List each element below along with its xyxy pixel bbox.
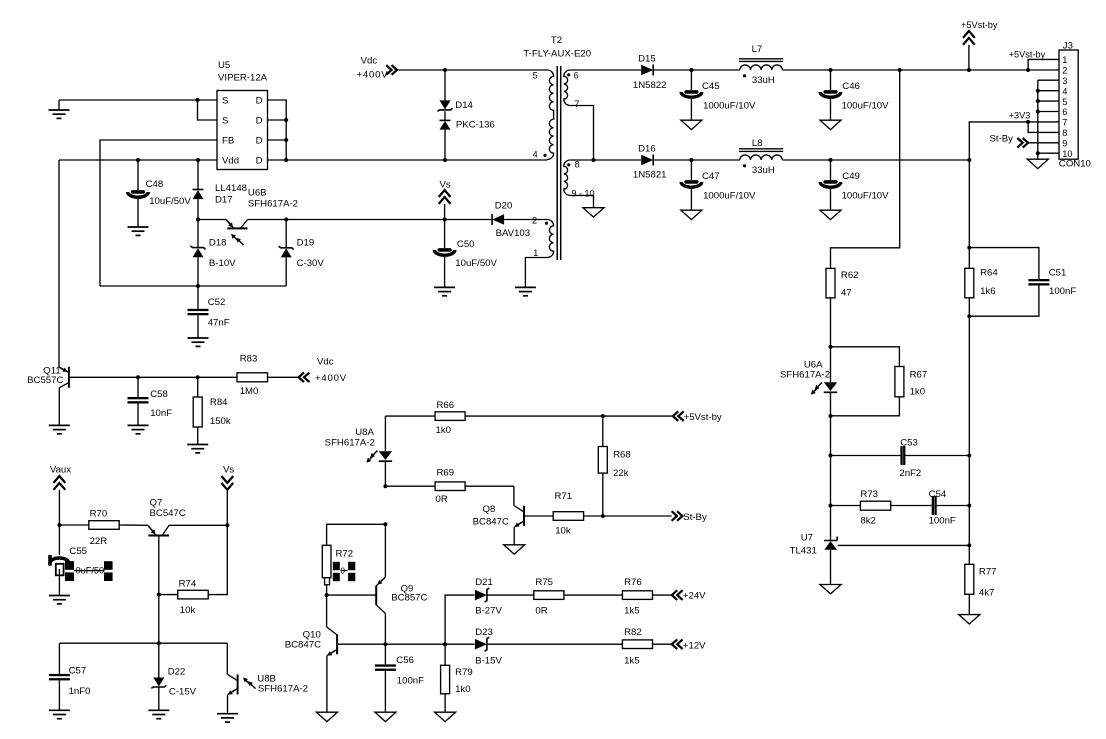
wire — [59, 642, 227, 644]
resistor R71 10k — [524, 491, 672, 536]
svg-text:SFH617A-2: SFH617A-2 — [780, 370, 830, 381]
port Vdc input — [357, 56, 398, 81]
node S junction — [196, 98, 200, 102]
ground — [820, 585, 841, 594]
wire — [570, 159, 641, 161]
svg-text:PKC-136: PKC-136 — [456, 120, 495, 131]
resistor R74 10k — [159, 525, 228, 616]
svg-text:4: 4 — [1062, 86, 1067, 96]
svg-text:U8A: U8A — [355, 427, 374, 438]
svg-text:1k6: 1k6 — [980, 286, 995, 297]
svg-text:1k0: 1k0 — [455, 684, 470, 695]
wire S1 — [59, 99, 217, 101]
resistor R79 1k0 — [441, 644, 473, 712]
node — [967, 454, 971, 458]
wire — [782, 69, 969, 71]
port +24V — [672, 590, 706, 601]
node — [157, 593, 161, 597]
transistor Q9 BC857C — [327, 524, 428, 613]
svg-text:10uF/50V: 10uF/50V — [149, 196, 191, 207]
supply Vaux — [50, 465, 71, 525]
node — [967, 504, 971, 508]
svg-text:7: 7 — [1062, 118, 1067, 128]
svg-text:2: 2 — [1062, 66, 1067, 76]
transistor Q8 BC847C — [473, 486, 524, 545]
svg-text:D23: D23 — [475, 627, 493, 638]
wire D21 branch — [445, 595, 474, 644]
svg-text:+5Vst-by: +5Vst-by — [1009, 50, 1046, 60]
svg-text:D21: D21 — [475, 577, 493, 588]
label T2 — [523, 35, 591, 59]
capacitor C55 10uF/50V — [48, 525, 112, 596]
svg-text:5: 5 — [1062, 97, 1067, 107]
svg-text:10k: 10k — [555, 525, 571, 536]
node — [1036, 151, 1040, 155]
svg-text:8: 8 — [1062, 128, 1067, 138]
svg-text:R68: R68 — [613, 450, 631, 461]
svg-text:R79: R79 — [455, 667, 473, 678]
ground — [820, 120, 841, 129]
node — [383, 642, 387, 646]
svg-text:J3: J3 — [1063, 40, 1073, 51]
wire — [384, 613, 386, 644]
wire — [397, 69, 547, 71]
svg-text:47: 47 — [841, 288, 852, 299]
node — [967, 314, 971, 318]
svg-text:R70: R70 — [90, 509, 108, 520]
node — [1026, 68, 1030, 72]
svg-text:C54: C54 — [929, 489, 947, 500]
resistor R72 10R — [322, 545, 355, 595]
capacitor C54 100nF — [929, 489, 970, 527]
svg-text:U6B: U6B — [248, 188, 267, 199]
svg-text:R82: R82 — [624, 627, 642, 638]
node — [829, 504, 833, 508]
svg-text:6: 6 — [1062, 107, 1067, 117]
svg-text:1k0: 1k0 — [436, 425, 451, 436]
resistor R84 150k — [193, 377, 231, 444]
wire Q11 collector — [58, 388, 60, 426]
transformer T2 primary winding — [533, 70, 554, 160]
node — [196, 284, 200, 288]
ground — [187, 445, 208, 453]
capacitor C49 100uF/10V — [820, 160, 889, 210]
svg-text:R64: R64 — [980, 268, 998, 279]
svg-text:1N5821: 1N5821 — [633, 170, 667, 181]
wire S2 — [198, 100, 218, 120]
wire pin10 — [1038, 152, 1059, 154]
transformer T2 aux winding 2-1 — [532, 215, 553, 258]
port Vdc — [299, 356, 347, 384]
resistor R82 1k5 — [622, 627, 671, 667]
svg-text:0uF/50: 0uF/50 — [76, 565, 105, 575]
inductor L7 33uH — [739, 44, 783, 86]
capacitor C46 100uF/10V — [820, 70, 889, 120]
supply +5Vst-by — [961, 20, 998, 70]
node — [1036, 110, 1040, 114]
svg-text:4: 4 — [533, 150, 538, 160]
ground — [49, 596, 70, 604]
ground — [681, 120, 702, 129]
svg-text:100uF/10V: 100uF/10V — [842, 101, 890, 112]
svg-text:L7: L7 — [752, 44, 763, 55]
svg-text:D: D — [256, 116, 263, 127]
node — [196, 158, 200, 162]
capacitor C57 1nF0 — [49, 643, 91, 710]
node — [601, 414, 605, 418]
diode D16 1N5821 — [633, 143, 667, 180]
port +5Vst-by — [673, 411, 722, 423]
wire — [570, 69, 641, 71]
node — [689, 158, 693, 162]
node — [967, 543, 971, 547]
ground — [128, 425, 149, 433]
connector J3 CON10 — [1059, 40, 1091, 169]
svg-text:0R: 0R — [535, 605, 547, 616]
svg-text:C48: C48 — [146, 179, 164, 190]
svg-text:+24V: +24V — [683, 591, 706, 602]
svg-text:St-By: St-By — [683, 512, 707, 523]
svg-text:Vs: Vs — [223, 465, 234, 476]
svg-text:2nF2: 2nF2 — [899, 468, 921, 479]
node — [136, 158, 140, 162]
resistor R66 1k0 — [385, 400, 672, 436]
transistor Q10 BC847C — [285, 627, 337, 712]
node — [829, 454, 833, 458]
svg-text:1: 1 — [1062, 55, 1067, 65]
ground — [959, 615, 980, 624]
ground — [49, 425, 70, 433]
svg-text:150k: 150k — [210, 416, 231, 427]
port St-By — [990, 134, 1060, 148]
svg-text:33uH: 33uH — [752, 75, 775, 86]
svg-text:+400V: +400V — [315, 373, 347, 384]
svg-text:4k7: 4k7 — [979, 587, 994, 598]
svg-text:Vdc: Vdc — [317, 356, 334, 367]
wire Vdd rail down — [58, 160, 60, 367]
resistor R76 1k5 — [622, 577, 671, 616]
port St-By — [672, 511, 707, 523]
svg-text:1k0: 1k0 — [910, 387, 925, 398]
svg-text:L8: L8 — [752, 138, 763, 149]
wire pin1 — [1009, 50, 1059, 70]
diode D20 BAV103 — [445, 200, 548, 239]
resistor R62 47 — [826, 268, 859, 298]
svg-text:BC557C: BC557C — [27, 375, 63, 386]
svg-text:22R: 22R — [90, 536, 108, 547]
wire Q11 base — [69, 376, 237, 378]
wire — [326, 595, 328, 627]
ic U5 VIPER-12A — [217, 60, 268, 170]
svg-text:8: 8 — [575, 160, 580, 170]
svg-text:9: 9 — [1062, 138, 1067, 148]
resistor R73 8k2 — [831, 489, 932, 527]
svg-text:8k2: 8k2 — [860, 515, 875, 526]
svg-text:1k5: 1k5 — [624, 605, 639, 616]
svg-text:BC847C: BC847C — [473, 516, 509, 527]
node — [1036, 99, 1040, 103]
svg-text:D16: D16 — [638, 143, 656, 154]
node — [157, 641, 161, 645]
supply Vs — [221, 465, 234, 526]
capacitor C58 10nF — [128, 377, 173, 425]
svg-text:TL431: TL431 — [790, 546, 817, 557]
svg-text:33uH: 33uH — [752, 165, 775, 176]
svg-text:R67: R67 — [910, 370, 928, 381]
wire — [327, 524, 386, 545]
wire R62 branch — [831, 70, 900, 268]
svg-text:C46: C46 — [842, 81, 860, 92]
svg-text:0R: 0R — [436, 494, 448, 505]
ground — [217, 714, 238, 722]
ground — [515, 287, 536, 295]
svg-text:D19: D19 — [297, 237, 315, 248]
zener D18 B-10V — [191, 220, 237, 287]
ground — [188, 338, 209, 346]
transformer T2 core — [557, 66, 561, 260]
svg-text:T-FLY-AUX-E20: T-FLY-AUX-E20 — [523, 48, 591, 59]
capacitor C47 1000uF/10V — [681, 160, 756, 210]
node — [592, 158, 596, 162]
node — [284, 118, 288, 122]
svg-text:D22: D22 — [168, 667, 186, 678]
resistor R69 0R — [385, 468, 514, 506]
node — [967, 158, 971, 162]
svg-text:1: 1 — [533, 248, 538, 258]
svg-text:6: 6 — [574, 71, 579, 81]
node — [898, 68, 902, 72]
wire pin9-10 — [570, 195, 593, 207]
svg-text:R83: R83 — [240, 354, 258, 365]
svg-text:5: 5 — [533, 71, 538, 81]
transformer T2 secondary winding 6-7 — [564, 70, 580, 109]
ground — [583, 208, 604, 217]
node — [829, 345, 833, 349]
ic U7 TL431 — [790, 532, 838, 584]
svg-text:1000uF/10V: 1000uF/10V — [703, 101, 756, 112]
svg-text:R76: R76 — [624, 577, 642, 588]
svg-text:C53: C53 — [900, 438, 918, 449]
svg-text:U5: U5 — [218, 60, 230, 71]
node — [225, 523, 229, 527]
svg-text:C-30V: C-30V — [297, 258, 325, 269]
node — [443, 218, 447, 222]
node — [1036, 89, 1040, 93]
wire — [286, 219, 444, 221]
svg-text:10uF/50V: 10uF/50V — [455, 258, 497, 269]
svg-text:D17: D17 — [215, 194, 233, 205]
node — [829, 414, 833, 418]
transformer T2 secondary winding 8-9/10 — [564, 160, 595, 199]
resistor R67 1k0 — [831, 347, 928, 416]
ground — [375, 712, 396, 721]
svg-text:BC847C: BC847C — [285, 640, 321, 651]
wire pin8 — [1028, 122, 1059, 132]
svg-text:R71: R71 — [555, 491, 573, 502]
svg-text:C50: C50 — [457, 239, 475, 250]
node — [443, 158, 447, 162]
node — [829, 68, 833, 72]
svg-text:T2: T2 — [551, 35, 562, 46]
svg-text:1M0: 1M0 — [240, 386, 259, 397]
svg-text:C56: C56 — [396, 655, 414, 666]
svg-text:1N5822: 1N5822 — [633, 80, 667, 91]
svg-text:D: D — [256, 96, 263, 107]
svg-text:R62: R62 — [841, 270, 859, 281]
capacitor C56 100nF — [375, 644, 424, 712]
resistor R77 4k7 — [965, 545, 997, 614]
node — [383, 522, 387, 526]
wire — [337, 643, 445, 645]
svg-text:100nF: 100nF — [929, 515, 956, 526]
zener D14 — [438, 70, 474, 111]
svg-text:C57: C57 — [69, 666, 87, 677]
transistor Q11 BC557C — [27, 366, 69, 388]
svg-text:R73: R73 — [860, 489, 878, 500]
ground — [49, 710, 70, 718]
svg-text:100uF/10V: 100uF/10V — [842, 191, 890, 202]
ground — [434, 287, 455, 295]
capacitor C50 10uF/50V — [434, 220, 497, 288]
svg-text:B-15V: B-15V — [475, 656, 502, 667]
node — [325, 593, 329, 597]
svg-text:10k: 10k — [180, 605, 196, 616]
ground — [148, 710, 169, 718]
ground — [504, 545, 525, 554]
svg-text:10nF: 10nF — [150, 408, 172, 419]
svg-text:9 - 10: 9 - 10 — [572, 188, 595, 198]
zener D23 B-15V — [475, 627, 623, 667]
wire Vdd — [59, 159, 217, 161]
svg-text:2: 2 — [532, 215, 537, 225]
resistor R68 22k — [598, 416, 630, 516]
svg-text:R66: R66 — [437, 400, 455, 411]
node — [967, 246, 971, 250]
node — [196, 375, 200, 379]
svg-text:U7: U7 — [801, 532, 813, 543]
svg-text:D15: D15 — [638, 54, 656, 65]
capacitor C53 2nF2 — [831, 438, 970, 479]
svg-text:D20: D20 — [495, 200, 513, 211]
svg-text:1000uF/10V: 1000uF/10V — [703, 191, 756, 202]
svg-text:R74: R74 — [179, 578, 197, 589]
svg-text:10: 10 — [1062, 149, 1072, 159]
svg-text:S: S — [222, 96, 228, 107]
svg-text:3: 3 — [1062, 76, 1067, 86]
svg-text:D18: D18 — [209, 237, 227, 248]
zener D19 C-30V — [279, 220, 325, 287]
wire — [968, 316, 970, 545]
ground — [435, 712, 456, 721]
svg-text:FB: FB — [222, 136, 234, 147]
svg-text:100nF: 100nF — [397, 676, 424, 687]
wire — [782, 159, 969, 161]
inductor L8 33uH — [739, 138, 783, 176]
svg-text:+5Vst-by: +5Vst-by — [961, 20, 998, 30]
wire pin1 — [525, 258, 547, 288]
resistor R83 1M0 — [237, 354, 268, 398]
ground — [128, 227, 149, 235]
svg-text:S: S — [222, 116, 228, 127]
capacitor C51 100nF — [969, 248, 1076, 317]
node — [284, 158, 288, 162]
svg-text:C58: C58 — [150, 389, 168, 400]
port +12V — [672, 639, 706, 651]
svg-text:C55: C55 — [69, 546, 87, 557]
node — [443, 642, 447, 646]
resistor R75 0R — [534, 577, 623, 616]
capacitor C45 1000uF/10V — [681, 70, 756, 120]
supply Vs — [439, 180, 451, 220]
wire — [830, 298, 832, 382]
ground — [49, 100, 70, 118]
svg-text:100nF: 100nF — [1049, 286, 1076, 297]
svg-text:22k: 22k — [613, 468, 629, 479]
resistor R64 1k6 — [965, 248, 999, 317]
node — [443, 68, 447, 72]
svg-text:BC547C: BC547C — [150, 508, 186, 519]
svg-text:C47: C47 — [702, 171, 720, 182]
svg-text:+12V: +12V — [683, 640, 706, 651]
capacitor C52 47nF — [188, 286, 230, 338]
svg-text:D: D — [256, 136, 263, 147]
svg-text:SFH617A-2: SFH617A-2 — [325, 437, 375, 448]
svg-text:7: 7 — [574, 99, 579, 109]
svg-text:R72: R72 — [336, 548, 354, 559]
wire — [830, 416, 832, 541]
node — [284, 218, 288, 222]
svg-text:0: 0 — [341, 567, 346, 576]
svg-text:Q7: Q7 — [150, 497, 163, 508]
svg-text:Vaux: Vaux — [50, 465, 71, 476]
svg-text:SFH617A-2: SFH617A-2 — [248, 198, 298, 209]
transistor Q7 BC547C — [148, 497, 228, 643]
wire — [653, 159, 740, 161]
svg-text:BAV103: BAV103 — [496, 228, 530, 239]
capacitor C48 — [128, 160, 192, 227]
svg-text:R77: R77 — [979, 567, 997, 578]
svg-text:St-By: St-By — [990, 134, 1014, 145]
node — [689, 68, 693, 72]
node — [829, 158, 833, 162]
zener D21 B-27V — [475, 577, 534, 616]
svg-text:Q8: Q8 — [482, 504, 495, 515]
opto transistor U6B SFH617A-2 — [198, 188, 298, 246]
svg-text:+400V: +400V — [357, 70, 389, 81]
wire — [100, 285, 286, 287]
wire — [968, 160, 970, 248]
wire — [653, 69, 740, 71]
ground — [820, 210, 841, 219]
node — [196, 218, 200, 222]
svg-text:Vdc: Vdc — [361, 56, 378, 67]
node — [284, 138, 288, 142]
svg-text:R75: R75 — [535, 577, 553, 588]
diode D15 1N5822 — [633, 54, 667, 91]
svg-text:C-15V: C-15V — [169, 687, 197, 698]
node — [136, 375, 140, 379]
svg-text:1nF0: 1nF0 — [69, 686, 91, 697]
svg-text:R84: R84 — [210, 397, 228, 408]
svg-text:R69: R69 — [437, 468, 455, 479]
svg-text:1k5: 1k5 — [624, 656, 639, 667]
ground — [681, 210, 702, 219]
wire — [969, 69, 1059, 71]
opto led U8A SFH617A-2 — [325, 416, 392, 486]
zener PKC-136 — [440, 111, 495, 160]
svg-text:Vs: Vs — [440, 180, 451, 191]
resistor R70 22R — [59, 509, 147, 548]
